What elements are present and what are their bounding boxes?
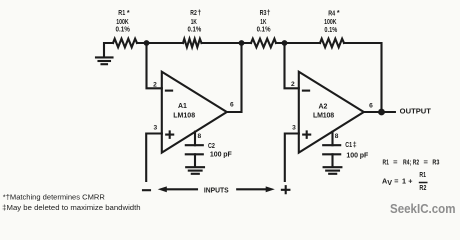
svg-text:SeekIC.com: SeekIC.com: [390, 201, 456, 216]
svg-text:*: *: [337, 10, 340, 17]
svg-text:2: 2: [291, 81, 295, 88]
svg-text:100 pF: 100 pF: [346, 152, 369, 159]
svg-text:R3: R3: [260, 10, 267, 17]
svg-text:1K: 1K: [260, 19, 266, 26]
svg-text:‡May be deleted to maximize ba: ‡May be deleted to maximize bandwidth: [2, 203, 140, 212]
svg-text:0.1%: 0.1%: [257, 27, 272, 34]
svg-text:R1: R1: [383, 157, 389, 166]
svg-text:6: 6: [230, 101, 234, 108]
svg-text:0.1%: 0.1%: [116, 27, 131, 34]
svg-text:8: 8: [197, 133, 201, 140]
svg-text:C1: C1: [345, 142, 352, 149]
svg-text:C2: C2: [208, 143, 215, 150]
svg-text:3: 3: [153, 125, 157, 132]
svg-text:A1: A1: [178, 103, 187, 110]
svg-text:1: 1: [402, 176, 406, 185]
svg-text:0.1%: 0.1%: [324, 27, 337, 34]
svg-text:1K: 1K: [191, 19, 197, 26]
svg-text:R2: R2: [413, 157, 419, 166]
svg-text:†: †: [267, 10, 271, 17]
svg-text:LM108: LM108: [313, 112, 334, 119]
svg-text:OUTPUT: OUTPUT: [400, 109, 432, 116]
svg-text:8: 8: [335, 133, 339, 140]
svg-text:R2: R2: [419, 183, 426, 192]
svg-text:3: 3: [292, 124, 296, 131]
svg-text:A2: A2: [319, 104, 328, 111]
svg-text:R3: R3: [432, 157, 439, 166]
svg-text:R1: R1: [118, 10, 125, 17]
svg-text:V: V: [387, 178, 392, 187]
svg-text:100K: 100K: [116, 19, 128, 26]
svg-text:R1: R1: [419, 170, 426, 179]
svg-text:0.1%: 0.1%: [188, 27, 202, 34]
svg-text:R4;: R4;: [403, 157, 411, 166]
svg-text:INPUTS: INPUTS: [204, 188, 229, 195]
svg-text:6: 6: [369, 102, 373, 109]
svg-text:†: †: [197, 10, 201, 17]
svg-text:LM108: LM108: [173, 112, 195, 119]
svg-text:‡: ‡: [353, 142, 357, 149]
svg-text:=: =: [393, 157, 397, 166]
svg-text:2: 2: [153, 82, 157, 89]
svg-text:R4: R4: [328, 10, 335, 17]
svg-text:=: =: [424, 157, 428, 166]
svg-text:100 pF: 100 pF: [210, 152, 233, 159]
svg-text:*: *: [127, 10, 130, 17]
svg-text:100K: 100K: [324, 19, 336, 26]
svg-text:R2: R2: [190, 10, 197, 17]
svg-text:=: =: [394, 176, 398, 185]
svg-text:+: +: [408, 177, 412, 186]
svg-text:*†Matching determines CMRR: *†Matching determines CMRR: [3, 192, 106, 201]
